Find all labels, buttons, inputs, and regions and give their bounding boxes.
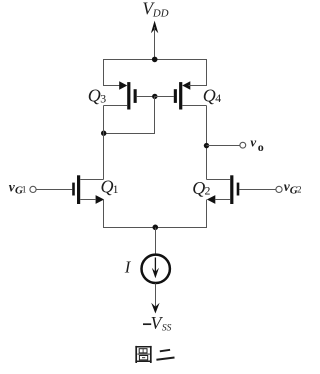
power VDD label [142, 0, 168, 19]
transistor Q4 (PMOS) [174, 81, 191, 109]
wire Q3 gate to center node [137, 96, 155, 98]
label vo [250, 134, 263, 154]
label Q3 [88, 86, 106, 106]
transistor Q1 (NMOS) [72, 175, 104, 204]
svg-text:1: 1 [113, 182, 119, 196]
wire Q1 source lead [80, 199, 96, 201]
node tail junction [153, 225, 159, 231]
wire current source to -VSS arrow [155, 283, 157, 308]
node feedback junction on left rail [101, 131, 106, 136]
wire Q1 drain lead [80, 179, 103, 181]
node top rail junction [152, 57, 158, 63]
node vo junction [204, 143, 209, 148]
power -VSS label [143, 313, 172, 333]
wire vG1 to Q1 gate [36, 189, 72, 191]
wire right rail Q4 drain to Q2 drain [206, 106, 208, 180]
power VDD arrow (up) [151, 21, 158, 60]
power -VSS arrow (down) [151, 303, 159, 314]
label vG2 [284, 179, 302, 196]
wire vo tap [207, 145, 240, 147]
wire top rail [103, 59, 207, 61]
svg-text:Q: Q [192, 178, 205, 198]
wire Q2 source lead [215, 199, 230, 201]
wire tail to current source [155, 228, 157, 254]
svg-text:2: 2 [205, 184, 211, 198]
label vG1 [9, 179, 27, 196]
svg-text:3: 3 [100, 91, 106, 105]
caption 圖二 (drawn glyphs) [135, 346, 174, 363]
wire Q2 gate lead [239, 189, 276, 191]
svg-text:Q: Q [203, 85, 216, 105]
wire left rail to Q3 source [104, 60, 122, 86]
svg-text:Q: Q [88, 86, 101, 106]
svg-text:SS: SS [162, 323, 172, 333]
terminal vo (open circle) [240, 142, 246, 148]
svg-text:2: 2 [297, 185, 302, 195]
label Q2 [192, 178, 210, 198]
wire Q1 source corner down [103, 200, 105, 228]
svg-text:4: 4 [215, 91, 221, 105]
terminal vG1 (open circle) [30, 186, 36, 192]
wire center node to Q4 gate [155, 96, 174, 98]
current source I (circle with down arrow) [142, 255, 170, 283]
wire Q4 source to top rail [189, 60, 207, 86]
transistor Q3 (PMOS) [119, 81, 137, 109]
wire tail rail [103, 227, 207, 229]
svg-text:o: o [258, 140, 264, 154]
label Q4 [203, 85, 222, 105]
svg-text:1: 1 [22, 185, 27, 195]
transistor Q2 (NMOS) [207, 175, 240, 204]
wire gate feedback (diode connection) [104, 96, 155, 133]
svg-text:v: v [250, 134, 256, 149]
label Q1 [101, 177, 119, 197]
node gate junction [152, 94, 157, 99]
wire Q2 drain lead [207, 179, 231, 181]
wire left rail Q3 drain to Q1 drain [103, 106, 105, 180]
terminal vG2 (open circle) [276, 186, 282, 192]
wire Q2 source corner down [206, 200, 208, 228]
wire Q3 drain lead [104, 105, 128, 107]
svg-text:DD: DD [152, 8, 169, 20]
wire Q4 drain lead [182, 105, 206, 107]
